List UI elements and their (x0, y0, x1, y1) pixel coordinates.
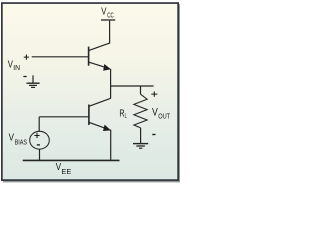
svg-text:V: V (8, 59, 13, 71)
svg-text:OUT: OUT (158, 113, 170, 120)
svg-text:CC: CC (107, 12, 114, 19)
svg-text:L: L (125, 113, 127, 120)
svg-text:V: V (56, 161, 61, 173)
svg-text:EE: EE (61, 169, 71, 176)
svg-text:V: V (9, 132, 14, 144)
svg-text:BIAS: BIAS (15, 139, 28, 146)
svg-text:IN: IN (13, 65, 20, 72)
svg-text:V: V (101, 6, 106, 18)
